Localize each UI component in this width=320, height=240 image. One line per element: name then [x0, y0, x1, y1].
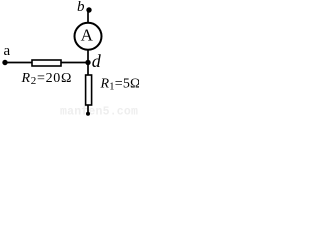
svg-text:d: d: [92, 51, 102, 71]
node a terminal dot: [2, 60, 7, 65]
svg-text:R2=20Ω: R2=20Ω: [21, 71, 73, 87]
svg-text:R1=5Ω: R1=5Ω: [100, 77, 140, 93]
wire b to ammeter: [87, 10, 89, 23]
svg-text:A: A: [81, 25, 94, 44]
svg-text:a: a: [4, 43, 11, 59]
wire R2 to node d: [61, 62, 88, 64]
bottom terminal dot: [86, 112, 90, 116]
ammeter U1 circle: [75, 23, 102, 50]
node d junction dot: [85, 60, 90, 65]
wire R1 to bottom terminal: [87, 105, 89, 114]
wire a to resistor R2: [5, 62, 32, 64]
wire ammeter to node d: [87, 49, 89, 63]
resistor R2 body: [32, 60, 61, 66]
resistor R1 body: [86, 75, 92, 105]
svg-text:manfen5.com: manfen5.com: [60, 106, 138, 118]
wire node d to resistor R1: [87, 63, 89, 76]
svg-text:b: b: [77, 0, 85, 15]
node b terminal dot: [86, 7, 91, 12]
background: [0, 0, 139, 117]
